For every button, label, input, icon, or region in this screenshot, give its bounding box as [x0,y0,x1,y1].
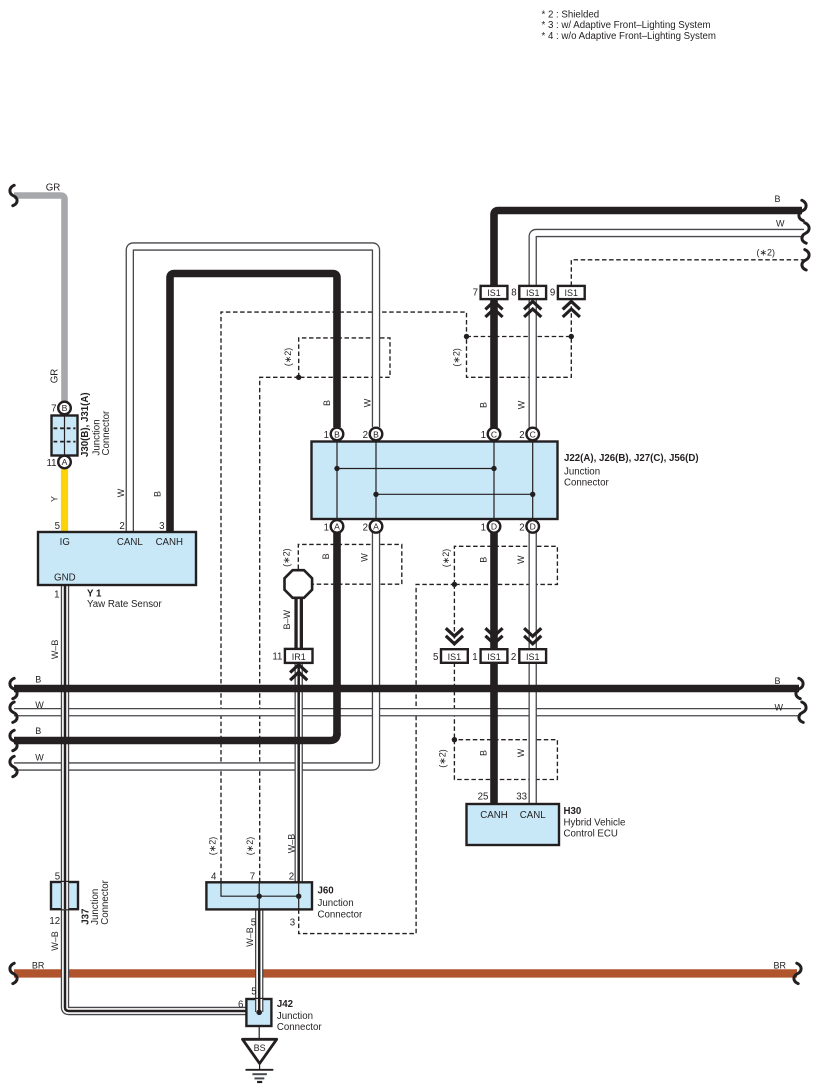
ground symbol [259,1064,261,1070]
svg-text:W: W [516,555,526,564]
svg-text:IS1: IS1 [526,652,540,662]
label J22(A), J26(B), J27(C), J56(D) junction connector [564,453,699,489]
svg-text:2: 2 [363,522,368,533]
junction connector J22 box [312,442,558,520]
shield arrow above IS1 pin2 [524,628,541,644]
svg-text:IS1: IS1 [526,288,540,298]
wire W: J22 pin 2(A) down to W bus 2 and left to break [12,525,376,767]
shield dashed box around J22 B-pin wires (*2) [299,338,390,377]
svg-text:B: B [775,194,781,204]
wire BR bus (CAN junction, brown) [14,969,797,977]
shield arrow under IS1 pin7 [485,301,502,317]
svg-text:7: 7 [473,287,478,298]
label H30 Hybrid Vehicle Control ECU [564,806,626,840]
svg-text:* 2 : Shielded: * 2 : Shielded [542,9,600,20]
pin circle 2(B) of J22 [370,428,383,441]
svg-text:1: 1 [481,430,486,441]
shield dashed wire (*2) to right break at top [571,260,806,286]
noise filter octagon [285,570,313,598]
svg-text:B: B [321,553,331,559]
shield dashed line: J60 pin4 up to top rail and over to C-pins shield [221,312,467,882]
pin circle 2(C) of J22 [526,428,539,441]
inline connector IS1 pin8 box [519,286,546,299]
svg-text:IS1: IS1 [487,652,501,662]
pin circle 2(A) of J22 [370,520,383,533]
svg-text:A: A [373,522,379,532]
svg-text:B: B [478,750,488,756]
svg-text:5: 5 [55,521,60,532]
svg-text:Yaw Rate Sensor: Yaw Rate Sensor [87,599,162,610]
svg-text:W: W [363,398,373,407]
svg-text:B: B [334,429,340,439]
svg-text:7: 7 [250,872,255,883]
break symbol W bus1 left [10,702,17,722]
node dot on dashed shield at H30 upper shield box [452,582,457,587]
svg-text:Connector: Connector [101,410,112,455]
svg-text:9: 9 [550,287,555,298]
svg-text:C: C [491,429,497,439]
svg-text:1: 1 [324,430,329,441]
svg-text:D: D [491,522,497,532]
break symbol (*2) dashed right [802,250,809,270]
svg-text:B: B [322,400,332,406]
svg-text:W: W [35,700,44,710]
svg-text:12: 12 [49,916,60,927]
ground BS triangle [243,1039,277,1063]
svg-text:Control ECU: Control ECU [564,829,618,840]
svg-text:W: W [516,748,526,757]
break symbol B bus1 left [10,678,17,698]
pin circle 1(B) of J22 [331,428,344,441]
svg-text:1: 1 [54,590,59,601]
svg-text:W–B: W–B [245,927,255,947]
svg-text:5: 5 [251,917,256,928]
svg-text:* 4 : w/o Adaptive Front–Light: * 4 : w/o Adaptive Front–Lighting System [542,31,716,42]
svg-text:8: 8 [511,287,516,298]
svg-text:B: B [153,491,163,497]
svg-text:5: 5 [251,986,256,997]
svg-text:B: B [478,557,488,563]
svg-text:(∗2): (∗2) [451,348,461,367]
wire W: Y1 CANL pin2 up, over, down to J22 pin 2(B) [130,247,376,534]
wire W-B into J42 (over box) [255,999,263,1012]
svg-text:2: 2 [119,521,124,532]
node dot on dashed shield at IS1-9 / C shield box right [569,334,574,339]
shield dashed box above H30 (*2) upper [454,546,557,584]
svg-text:33: 33 [516,792,527,803]
svg-text:H30: H30 [564,806,582,817]
svg-text:GR: GR [46,182,61,193]
svg-text:Connector: Connector [100,879,111,924]
svg-text:2: 2 [511,652,516,663]
junction connector J60 box [206,882,312,909]
svg-text:IS1: IS1 [565,288,579,298]
wire W-B: Y1 GND pin1 down through J37, right to J42 pin6 [65,584,258,1011]
break symbol B bus2 left [10,730,17,750]
svg-text:3: 3 [290,917,295,928]
svg-text:* 3 : w/ Adaptive Front–Lighti: * 3 : w/ Adaptive Front–Lighting System [542,20,711,31]
svg-text:(∗2): (∗2) [757,247,776,257]
svg-text:1: 1 [472,652,477,663]
svg-text:C: C [530,429,536,439]
svg-text:A: A [334,522,340,532]
svg-text:W: W [116,488,126,497]
pin circle 1(D) of J22 [488,520,501,533]
svg-text:BR: BR [32,961,45,971]
wire GR: from break, down to J30 junction connector [14,196,65,402]
svg-text:IS1: IS1 [448,652,462,662]
inline connector IS1 pin9 box [558,286,585,299]
svg-text:Y: Y [50,496,60,502]
svg-text:B: B [62,403,68,413]
svg-text:11: 11 [46,458,56,469]
svg-text:4: 4 [211,872,217,883]
node dot on dashed shield at B shield box corner [296,375,301,380]
svg-text:2: 2 [363,430,368,441]
svg-text:(∗2): (∗2) [207,837,217,856]
wire W-B: IR1 pin11 down to J60 pin2 [295,661,303,882]
svg-text:B–W: B–W [282,609,292,629]
node line CANL inside J22 [376,493,533,495]
svg-text:BR: BR [774,960,787,970]
shield arrow under IS1 pin9 [563,301,580,317]
svg-text:5: 5 [433,652,438,663]
svg-text:GND: GND [54,573,76,584]
inline connector IR1 pin11 box [285,649,313,663]
svg-text:CANH: CANH [156,537,183,548]
svg-text:IG: IG [60,537,70,548]
shield arrow above IS1 pin5 [446,628,463,644]
svg-text:CANH: CANH [480,810,507,821]
svg-text:Junction: Junction [564,466,600,477]
svg-text:J22(A), J26(B), J27(C), J56(D): J22(A), J26(B), J27(C), J56(D) [564,453,699,464]
svg-text:J42: J42 [277,999,293,1010]
label J60 junction connector [318,885,363,920]
svg-text:A: A [62,457,68,467]
svg-text:2: 2 [519,522,524,533]
svg-text:Junction: Junction [277,1011,313,1022]
component H30 Hybrid Vehicle Control ECU box [467,804,560,845]
node line CANH inside J22 [337,468,494,470]
pin circle 11(A) of J30 [58,456,71,469]
pin circle 1(C) of J22 [488,428,501,441]
svg-text:11: 11 [272,651,282,662]
svg-text:Connector: Connector [277,1022,322,1033]
break symbol BR right [794,963,801,983]
wire ground lead below J42 [258,1026,260,1039]
svg-text:W: W [35,752,44,762]
break symbol W top right [802,223,809,243]
break symbol W bus2 left [10,756,17,776]
svg-text:W–B: W–B [287,834,297,854]
svg-text:W–B: W–B [50,931,60,951]
inline connector IS1 pin2 box [519,649,546,663]
shield arrow under IS1 pin8 [524,301,541,317]
shield arrow under IR1 [290,665,307,681]
svg-text:J60: J60 [318,885,334,896]
break symbol GR left [10,185,17,205]
svg-text:W: W [517,400,527,409]
break symbol BR left [10,963,17,983]
svg-text:D: D [530,522,536,532]
shield dashed box around noise-filter octagon (*2) [298,544,402,584]
svg-text:CANL: CANL [520,810,546,821]
svg-text:1: 1 [324,522,329,533]
wire Y: J30 pin 11(A) down to Y1 IG pin5 [61,469,68,532]
node junction inside J42 [256,1010,262,1016]
svg-text:W–B: W–B [50,640,60,660]
svg-text:BS: BS [254,1043,266,1053]
wire W-B: J60 pin5 down to J42 junction [255,909,263,1012]
svg-text:5: 5 [55,872,60,883]
wire B: J22 pin 1(A) down to B bus 2 and left to break [333,526,341,736]
wire B-W: octagon noise filter down to IR1 pin11 [294,597,303,651]
svg-text:Connector: Connector [318,909,363,920]
svg-text:IR1: IR1 [292,652,306,662]
svg-text:B: B [373,429,379,439]
svg-text:25: 25 [478,792,489,803]
svg-text:3: 3 [159,521,164,532]
svg-text:B: B [479,402,489,408]
wire W: right break through IS1 pin8 down to J22 2(C), 2(D), H30 CANL pin33 [533,233,806,805]
svg-text:GR: GR [50,369,61,384]
break symbol W bus1 right [799,702,806,722]
node dot on dashed shield at H30 lower shield box [452,737,457,742]
svg-text:7: 7 [51,403,56,414]
shield dashed line: J60 pin3 loop up to H30 shield [299,584,455,933]
svg-text:Hybrid Vehicle: Hybrid Vehicle [564,817,626,828]
shield dashed wire from IS1 pin9 down to C shield box [570,299,572,336]
svg-text:W: W [776,219,785,229]
svg-text:IS1: IS1 [487,288,501,298]
svg-text:Junction: Junction [318,898,354,909]
junction connector J42 box [246,999,271,1026]
shield dashed box around J22 C-pin wires (*2) [467,337,572,378]
svg-text:CANL: CANL [117,537,143,548]
svg-text:6: 6 [238,1000,243,1011]
legend notes [542,9,716,42]
svg-text:B: B [35,726,41,736]
wire B: Y1 CANH pin3 up, over, down to J22 pin 1(B) [170,274,337,533]
inline connector IS1 pin1 box [481,649,508,663]
svg-text:1: 1 [481,522,486,533]
label J37 junction connector [80,879,111,924]
pin circle 2(D) of J22 [526,520,539,533]
svg-text:B: B [775,676,781,686]
break symbol B bus1 right [796,678,803,698]
node dot on dashed shield at C shield box left [464,334,469,339]
svg-text:(∗2): (∗2) [283,348,293,367]
svg-text:(∗2): (∗2) [441,549,451,568]
inline connector IS1 pin7 box [481,286,508,299]
svg-text:J30(B), J31(A): J30(B), J31(A) [80,392,91,457]
svg-text:(∗2): (∗2) [282,548,292,567]
shield dashed line: J60 pin7 up to B-pins shield corner [260,377,299,882]
component Y1 Yaw Rate Sensor box [38,532,196,585]
pin circle 7(B) of J30 [58,402,71,415]
svg-text:Connector: Connector [564,478,609,489]
svg-text:W: W [360,553,370,562]
break symbol B top right [799,200,806,220]
junction connector J37 box [51,882,78,909]
svg-text:(∗2): (∗2) [438,749,448,768]
svg-text:2: 2 [289,872,294,883]
svg-text:2: 2 [519,430,524,441]
wire W-B through J37 (redraw over box) [61,882,69,909]
pin circle 1(A) of J22 [331,520,344,533]
label J30(B), J31(A) junction connector [80,392,112,457]
wire B bus 1 (black) [14,685,799,693]
shield dashed box above H30 (*2) lower [454,740,557,780]
shield arrow above IS1 pin1 [485,628,502,644]
svg-text:(∗2): (∗2) [245,837,255,856]
wire W bus 1 (white) [12,708,803,716]
label J42 junction connector [277,999,322,1033]
wire B: right break through IS1 pin7 down to J22 1(C), 1(D), H30 CANH pin25 [494,211,802,805]
junction connector J30(B), J31(A) box [52,416,78,456]
svg-text:W: W [775,703,784,713]
shield dashed wire through IS1 pin5 [453,584,455,739]
svg-text:Y 1: Y 1 [87,589,102,600]
svg-text:B: B [35,674,41,684]
inline connector IS1 pin5 box [441,649,468,663]
